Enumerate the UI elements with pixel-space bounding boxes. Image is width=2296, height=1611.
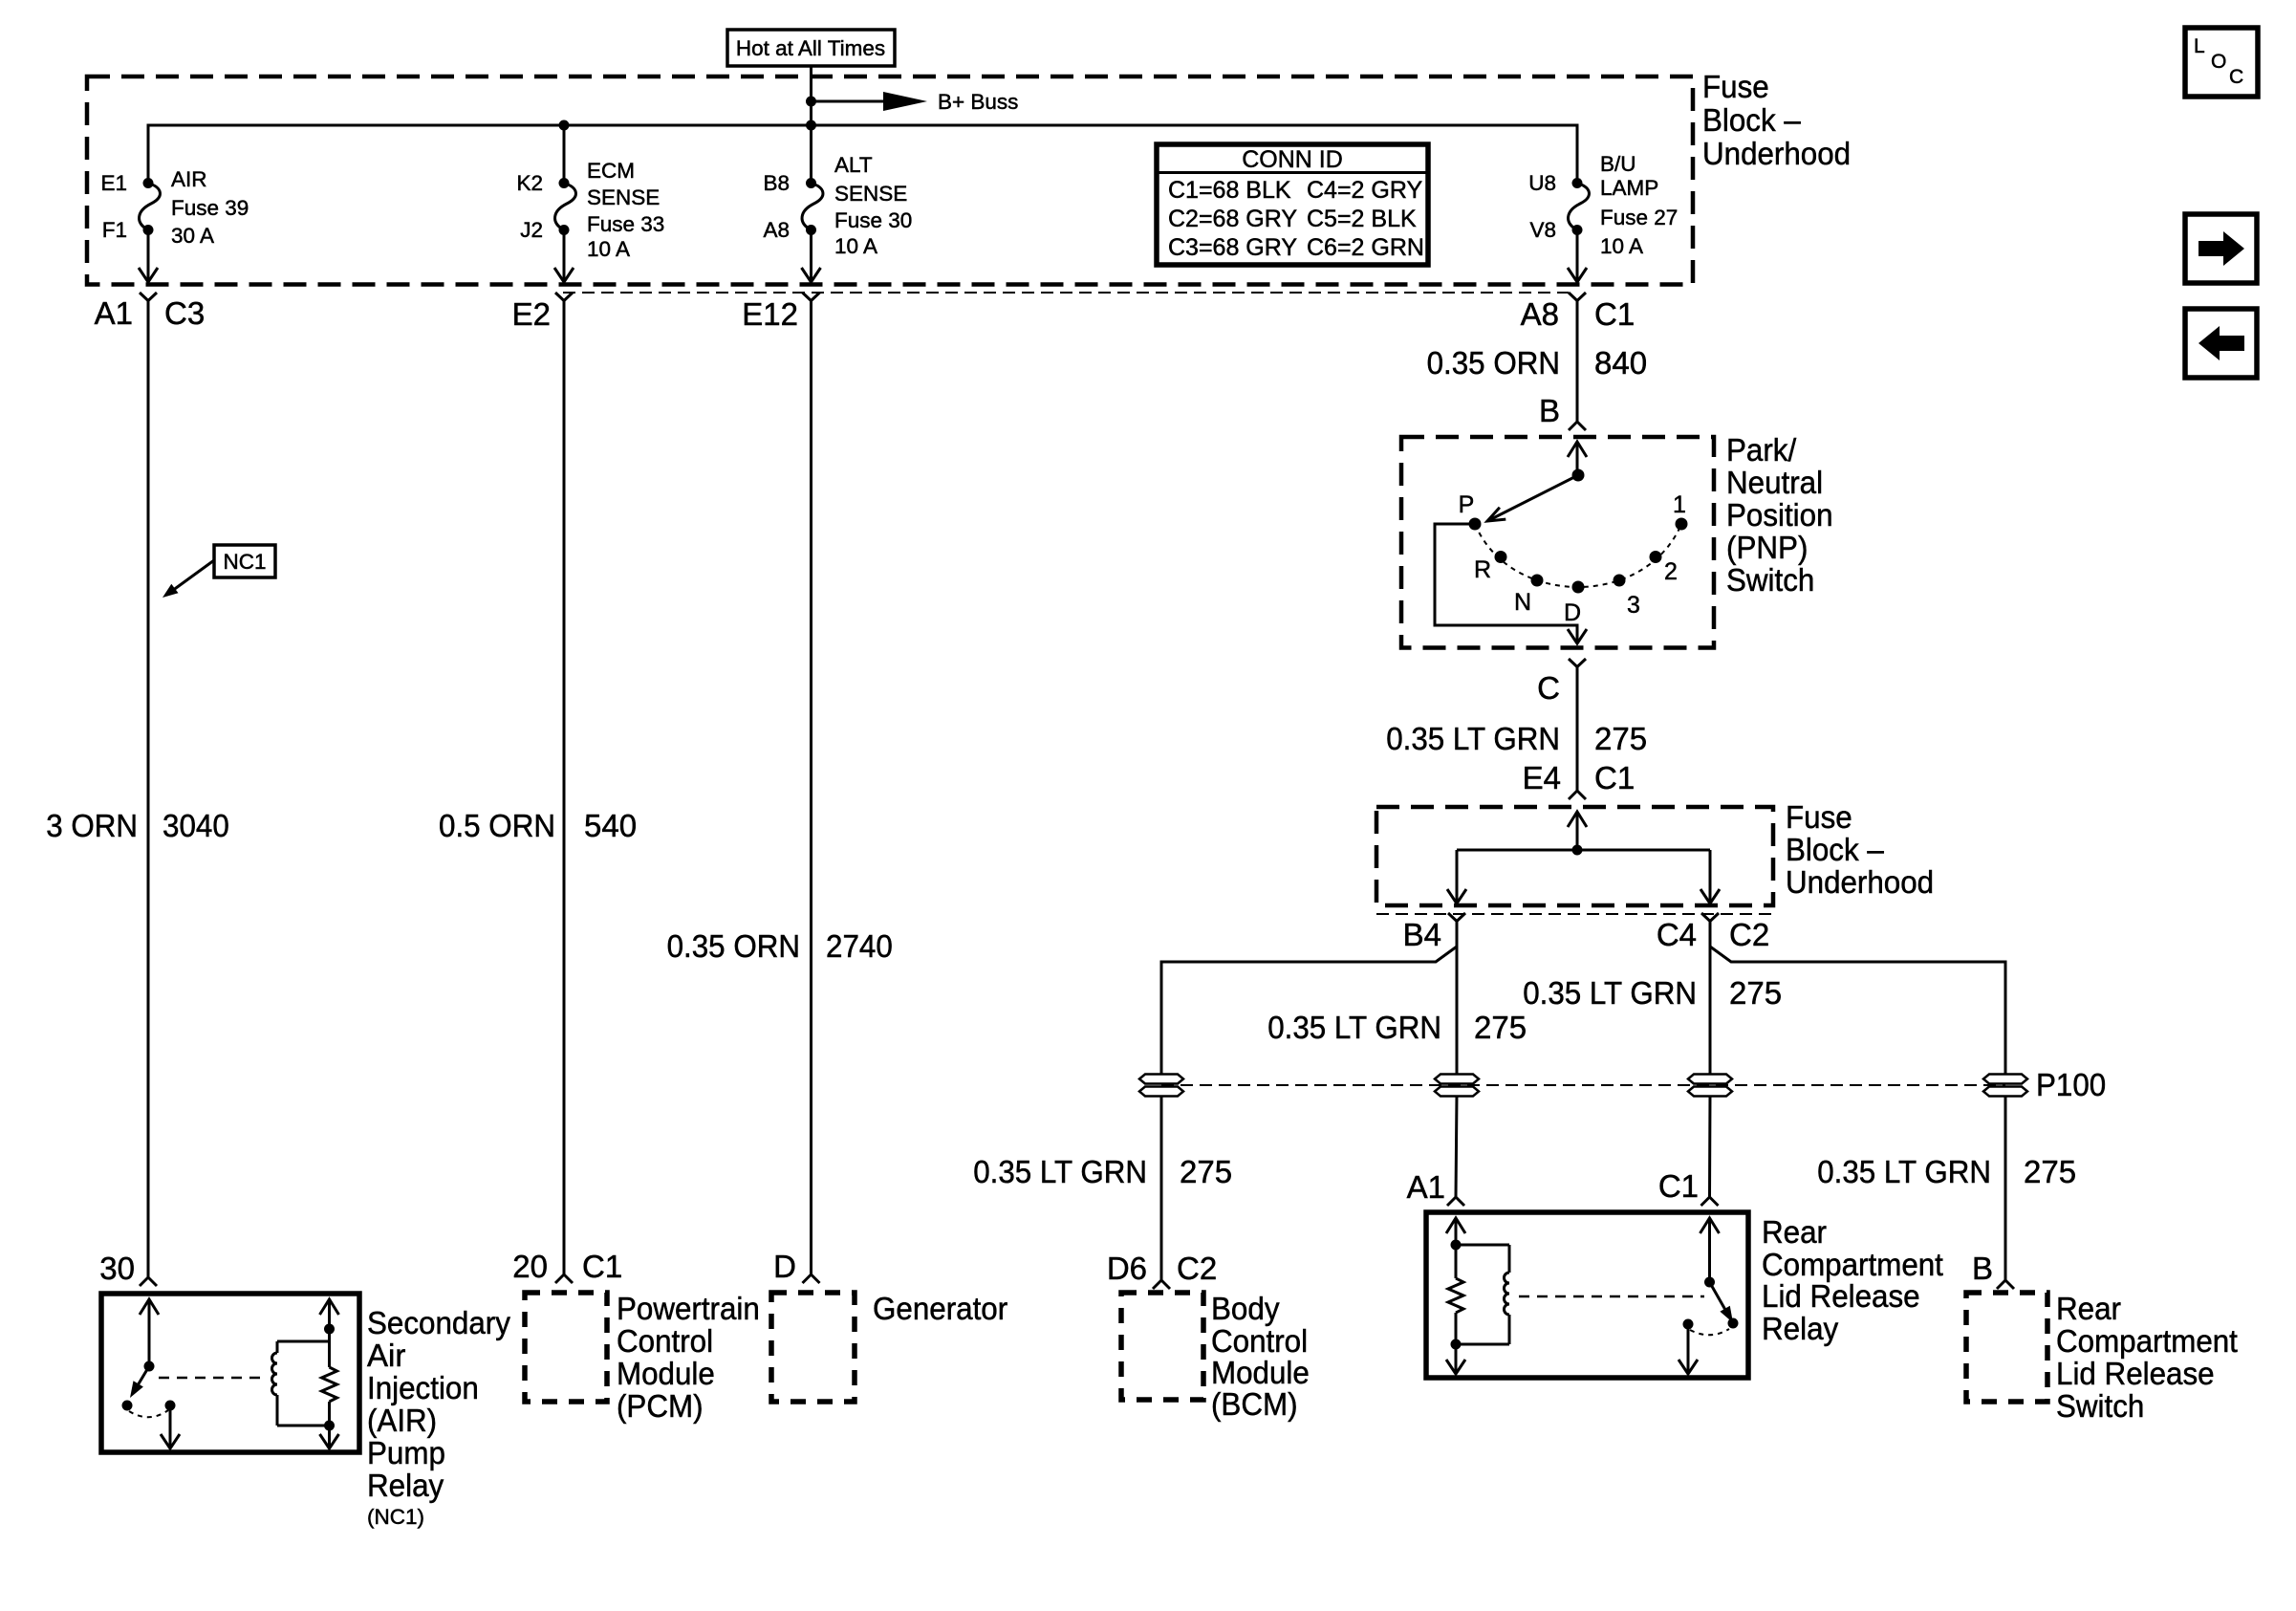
inline connector P100 (relay C1 column)	[1688, 1075, 1732, 1097]
svg-text:C2: C2	[1729, 917, 1769, 952]
NC1 tag	[162, 545, 275, 598]
wire A1 to AIR pump relay	[147, 301, 150, 1278]
svg-text:Neutral: Neutral	[1726, 465, 1823, 500]
wire fuse30 to E12 with arrow	[802, 230, 821, 283]
svg-text:C4=2 GRY: C4=2 GRY	[1307, 177, 1422, 204]
svg-text:C1: C1	[1594, 296, 1635, 332]
release relay switch pivot node	[1704, 1277, 1715, 1288]
release relay coil input wire	[1446, 1218, 1465, 1278]
generator dashed box	[771, 1293, 855, 1402]
pin labels E4 C1	[1523, 760, 1635, 795]
release relay switch blade	[1710, 1282, 1734, 1323]
AIR relay label	[367, 1305, 510, 1529]
svg-text:Fuse: Fuse	[1702, 69, 1769, 104]
label 0.35 ORN 840	[1427, 345, 1647, 381]
inline connector P100 (switch column)	[1983, 1067, 2106, 1102]
label 0.35 LT GRN 275	[1386, 721, 1647, 756]
AIR relay switch pivot node	[144, 1361, 155, 1372]
PNP contact 2	[1650, 551, 1662, 563]
label Hot at All Times	[727, 30, 895, 66]
label 0.35 LT GRN 275 (BCM column)	[973, 1154, 1232, 1189]
wire E2 to PCM	[563, 301, 566, 1275]
svg-text:B/U: B/U	[1600, 152, 1636, 176]
CONN ID table	[1157, 144, 1428, 265]
svg-text:NC1: NC1	[223, 550, 266, 574]
svg-text:(PNP): (PNP)	[1726, 530, 1808, 565]
svg-text:3040: 3040	[162, 808, 229, 843]
svg-text:Powertrain: Powertrain	[617, 1291, 760, 1326]
svg-text:20: 20	[512, 1249, 548, 1284]
label 0.5 ORN 540	[439, 808, 637, 843]
PCM label	[617, 1291, 760, 1424]
fuse block underhood label	[1702, 69, 1851, 171]
svg-text:ALT: ALT	[834, 153, 873, 177]
PNP contact 3	[1614, 575, 1626, 587]
svg-text:0.35 ORN: 0.35 ORN	[1427, 345, 1560, 381]
svg-text:275: 275	[1594, 721, 1647, 756]
svg-text:3: 3	[1627, 592, 1640, 619]
svg-text:275: 275	[1474, 1010, 1527, 1045]
svg-text:SENSE: SENSE	[834, 182, 907, 206]
svg-text:B4: B4	[1403, 917, 1441, 952]
PNP contact R	[1495, 551, 1507, 563]
svg-text:840: 840	[1594, 345, 1647, 381]
svg-text:C2: C2	[1177, 1251, 1217, 1286]
release relay blade tip node	[1728, 1318, 1739, 1329]
svg-text:LAMP: LAMP	[1600, 176, 1658, 200]
connector thin dashed line below fuse block 2	[1376, 913, 1773, 915]
svg-text:A8: A8	[763, 218, 790, 242]
svg-text:N: N	[1514, 589, 1531, 616]
wire E12 to Generator	[810, 301, 812, 1275]
AIR relay coil	[272, 1341, 330, 1426]
wire A8 to PNP switch	[1576, 301, 1579, 423]
svg-text:A1: A1	[95, 295, 133, 331]
svg-text:2740: 2740	[826, 928, 893, 964]
AIR relay resistor	[322, 1367, 337, 1402]
svg-text:0.5 ORN: 0.5 ORN	[439, 808, 555, 843]
fuse 39 AIR 30A	[100, 167, 249, 248]
PNP wiper arrow to P	[1487, 475, 1578, 521]
release relay output contact node	[1683, 1319, 1694, 1330]
AIR relay output contact node	[165, 1401, 176, 1411]
svg-text:L: L	[2194, 35, 2205, 57]
svg-text:Lid Release: Lid Release	[2056, 1356, 2215, 1391]
svg-text:Air: Air	[367, 1338, 405, 1373]
B+ Buss arrow	[812, 90, 1019, 114]
svg-text:Fuse 30: Fuse 30	[834, 208, 912, 232]
node B+ tap	[806, 97, 816, 107]
body control module dashed box	[1121, 1293, 1203, 1400]
svg-text:SENSE: SENSE	[587, 185, 660, 209]
svg-text:J2: J2	[520, 218, 543, 242]
svg-text:C1: C1	[1658, 1168, 1699, 1204]
PNP contact D	[1572, 581, 1585, 594]
BCM label	[1211, 1291, 1310, 1422]
svg-text:C1: C1	[582, 1249, 622, 1284]
svg-text:Fuse: Fuse	[1786, 799, 1852, 835]
AIR relay switch blade	[130, 1366, 149, 1398]
svg-text:R: R	[1474, 556, 1491, 583]
wire C4 down to relay C1	[1708, 922, 1712, 1198]
release relay resistor	[1448, 1278, 1463, 1313]
PNP wiper pivot node	[1572, 469, 1585, 482]
release relay switch input wire	[1700, 1218, 1720, 1282]
connector break at PCM pin 20	[555, 1274, 573, 1283]
svg-text:D: D	[773, 1249, 796, 1284]
svg-text:Block –: Block –	[1702, 102, 1801, 138]
svg-text:(PCM): (PCM)	[617, 1388, 704, 1424]
svg-text:B8: B8	[763, 171, 790, 195]
svg-text:P: P	[1459, 491, 1475, 518]
svg-text:AIR: AIR	[171, 167, 207, 191]
svg-text:Rear: Rear	[1762, 1214, 1827, 1250]
svg-text:0.35 LT GRN: 0.35 LT GRN	[1267, 1010, 1441, 1045]
connector break at PNP pin B	[1569, 422, 1586, 430]
rear compartment lid release relay box	[1426, 1212, 1748, 1378]
svg-text:C5=2 BLK: C5=2 BLK	[1307, 206, 1417, 232]
connector break at PNP pin C	[1537, 659, 1586, 706]
svg-text:(AIR): (AIR)	[367, 1403, 437, 1438]
svg-text:K2: K2	[516, 171, 543, 195]
svg-text:0.35 LT GRN: 0.35 LT GRN	[973, 1154, 1147, 1189]
connector P100 dashed line	[1161, 1084, 2005, 1086]
AIR relay coil feed wire with arrows	[320, 1299, 339, 1448]
svg-text:275: 275	[1729, 975, 1782, 1011]
fuse block 2 label	[1786, 799, 1934, 900]
pin 20 / C1 labels at PCM	[512, 1249, 622, 1284]
fuse block underhood dashed box	[87, 76, 1693, 285]
svg-text:Module: Module	[617, 1356, 715, 1391]
inline connector P100 (BCM column)	[1139, 1075, 1183, 1097]
label 0.35 ORN 2740	[667, 928, 893, 964]
connector break at relay pin A1	[1447, 1197, 1464, 1206]
release relay switch dashed arc	[1690, 1329, 1729, 1335]
svg-text:Fuse 33: Fuse 33	[587, 212, 664, 236]
svg-text:10 A: 10 A	[587, 237, 630, 261]
wire bus to ECM fuse	[563, 125, 566, 183]
connector break E12	[742, 293, 819, 332]
fuse 30 ALT SENSE 10A	[763, 153, 912, 258]
AIR relay switch input wire	[140, 1299, 159, 1366]
rear compartment lid release switch dashed box	[1966, 1293, 2047, 1402]
label 3 ORN 3040	[46, 808, 229, 843]
node bus-ALT junction	[806, 120, 816, 131]
label 0.35 LT GRN 275 (switch column)	[1817, 1154, 2076, 1189]
svg-text:2: 2	[1664, 558, 1678, 585]
svg-text:3 ORN: 3 ORN	[46, 808, 138, 843]
svg-text:Injection: Injection	[367, 1370, 479, 1405]
svg-text:C: C	[1537, 670, 1560, 706]
connector break A8/C1	[1521, 293, 1635, 332]
svg-text:P100: P100	[2036, 1067, 2106, 1102]
connector break A1/C3	[95, 293, 206, 331]
svg-text:E1: E1	[100, 171, 127, 195]
PNP switch label	[1726, 432, 1833, 598]
wire bus to ALT fuse	[810, 125, 812, 183]
release relay resistor lower wire with arrow	[1446, 1313, 1465, 1374]
svg-text:0.35 LT GRN: 0.35 LT GRN	[1386, 721, 1560, 756]
bus wire inside fuse block	[148, 125, 1577, 183]
svg-text:540: 540	[584, 808, 637, 843]
svg-text:Control: Control	[617, 1323, 713, 1359]
connector break at switch pin B	[1997, 1280, 2014, 1289]
release relay coil	[1456, 1245, 1509, 1344]
svg-text:E12: E12	[742, 296, 798, 332]
svg-text:C3: C3	[164, 295, 205, 331]
svg-text:Control: Control	[1211, 1323, 1308, 1359]
PNP switch dashed box	[1401, 437, 1714, 648]
wire from Hot at All Times into fuse block	[810, 66, 812, 125]
secondary air injection pump relay box	[101, 1294, 359, 1452]
fuse block underhood 2 dashed box	[1376, 807, 1773, 905]
svg-text:30 A: 30 A	[171, 224, 214, 248]
wire fuse27 to A8 with arrow	[1568, 230, 1587, 283]
svg-text:CONN ID: CONN ID	[1242, 146, 1343, 173]
svg-text:ECM: ECM	[587, 159, 635, 183]
svg-text:(BCM): (BCM)	[1211, 1386, 1298, 1422]
release relay output wire with arrow	[1679, 1324, 1698, 1374]
PNP entry arrow and wire	[1568, 442, 1587, 475]
connector break at BCM pin D6	[1153, 1280, 1170, 1289]
svg-text:C2=68 GRY: C2=68 GRY	[1168, 206, 1297, 232]
svg-text:Switch: Switch	[2056, 1388, 2144, 1424]
AIR relay actuation dashed line	[159, 1377, 264, 1380]
svg-text:Body: Body	[1211, 1291, 1280, 1326]
svg-text:B: B	[1972, 1251, 1993, 1286]
svg-text:C: C	[2229, 66, 2243, 88]
connector break at AIR relay pin 30	[140, 1277, 157, 1286]
svg-text:275: 275	[2024, 1154, 2076, 1189]
AIR relay switch dashed arc	[129, 1410, 168, 1417]
svg-text:275: 275	[1180, 1154, 1232, 1189]
powertrain control module dashed box	[525, 1293, 607, 1402]
connector break at Generator pin D	[803, 1274, 820, 1283]
svg-text:O: O	[2211, 51, 2226, 73]
connector break E2	[512, 293, 573, 332]
node bus-ECM junction	[559, 120, 570, 131]
svg-text:E2: E2	[512, 296, 551, 332]
svg-text:A8: A8	[1521, 296, 1559, 332]
svg-text:U8: U8	[1528, 171, 1556, 195]
connector break B4	[1403, 913, 1465, 952]
svg-text:10 A: 10 A	[1600, 234, 1643, 258]
svg-text:Compartment: Compartment	[2056, 1323, 2238, 1359]
wire C2 branch to switch column	[1710, 947, 2005, 1280]
PNP contact 1	[1676, 518, 1688, 531]
svg-text:(NC1): (NC1)	[367, 1505, 424, 1529]
fuse 27 B/U LAMP 10A	[1528, 152, 1678, 258]
svg-text:1: 1	[1673, 491, 1686, 518]
svg-text:C3=68 GRY: C3=68 GRY	[1168, 234, 1297, 261]
svg-text:0.35 LT GRN: 0.35 LT GRN	[1817, 1154, 1991, 1189]
svg-text:E4: E4	[1523, 760, 1561, 795]
svg-text:Position: Position	[1726, 497, 1833, 533]
svg-text:30: 30	[99, 1251, 135, 1286]
pin D6 / C2 labels at BCM	[1107, 1251, 1217, 1286]
svg-text:Lid Release: Lid Release	[1762, 1278, 1920, 1314]
legend right arrow box	[2185, 214, 2257, 283]
svg-text:V8: V8	[1529, 218, 1556, 242]
connector break at relay pin C1	[1701, 1197, 1719, 1206]
svg-text:Block –: Block –	[1786, 832, 1884, 867]
svg-text:Underhood: Underhood	[1786, 864, 1934, 900]
svg-text:Generator: Generator	[873, 1291, 1007, 1326]
svg-text:Rear: Rear	[2056, 1291, 2121, 1326]
wire B4 branch to BCM column	[1161, 947, 1457, 1280]
AIR relay NC contact node	[122, 1401, 133, 1411]
PNP contact arc dashed	[1475, 524, 1681, 587]
svg-text:C6=2 GRN: C6=2 GRN	[1307, 234, 1424, 261]
svg-text:0.35 ORN: 0.35 ORN	[667, 928, 800, 964]
legend left arrow box	[2185, 309, 2257, 378]
PNP contact N	[1531, 575, 1544, 587]
PNP P contact wire to pin C	[1435, 524, 1587, 643]
LOC legend box	[2185, 28, 2258, 97]
AIR relay output wire with arrow	[161, 1405, 180, 1448]
wire C to fuse block E4	[1576, 667, 1579, 792]
svg-text:Module: Module	[1211, 1355, 1310, 1390]
PNP contact P	[1469, 518, 1482, 531]
svg-text:Fuse 27: Fuse 27	[1600, 206, 1678, 229]
PNP contact labels	[1459, 491, 1686, 626]
svg-text:B+ Buss: B+ Buss	[938, 90, 1018, 114]
wire fuse39 to A1 with arrow	[139, 230, 158, 283]
svg-text:C4: C4	[1657, 917, 1697, 952]
svg-text:D: D	[1564, 599, 1581, 626]
fuse block 2 internal wires	[1447, 812, 1720, 903]
inline connector P100 (relay A1 column)	[1435, 1075, 1479, 1097]
svg-text:Switch: Switch	[1726, 562, 1814, 598]
release relay actuation dashed line	[1519, 1295, 1704, 1298]
svg-text:10 A: 10 A	[834, 234, 877, 258]
release relay label	[1762, 1214, 1943, 1346]
connector C1 thin dashed line	[563, 292, 1569, 294]
svg-text:Relay: Relay	[1762, 1311, 1839, 1346]
svg-text:C1=68 BLK: C1=68 BLK	[1168, 177, 1291, 204]
connector break C4/C2	[1657, 913, 1769, 952]
wire B4 down to relay A1	[1456, 922, 1457, 1198]
fuse 33 ECM SENSE 10A	[516, 159, 664, 261]
svg-text:Underhood: Underhood	[1702, 136, 1851, 171]
svg-text:Hot at All Times: Hot at All Times	[736, 36, 885, 60]
release switch label	[2056, 1291, 2238, 1424]
label 0.35 LT GRN 275 (B4)	[1267, 1010, 1527, 1045]
svg-text:0.35 LT GRN: 0.35 LT GRN	[1523, 975, 1697, 1011]
svg-text:C1: C1	[1594, 760, 1635, 795]
svg-text:B: B	[1539, 393, 1560, 428]
svg-text:A1: A1	[1407, 1169, 1445, 1205]
svg-text:F1: F1	[102, 218, 127, 242]
label 0.35 LT GRN 275 (C4)	[1523, 975, 1782, 1011]
svg-text:Compartment: Compartment	[1762, 1247, 1943, 1282]
svg-text:Relay: Relay	[367, 1468, 444, 1503]
svg-text:D6: D6	[1107, 1251, 1147, 1286]
wire fuse33 to E2 with arrow	[554, 230, 574, 283]
svg-text:Pump: Pump	[367, 1435, 445, 1470]
connector break at E4	[1569, 791, 1586, 799]
svg-text:Secondary: Secondary	[367, 1305, 510, 1340]
svg-text:Fuse 39: Fuse 39	[171, 196, 249, 220]
svg-text:Park/: Park/	[1726, 432, 1797, 468]
